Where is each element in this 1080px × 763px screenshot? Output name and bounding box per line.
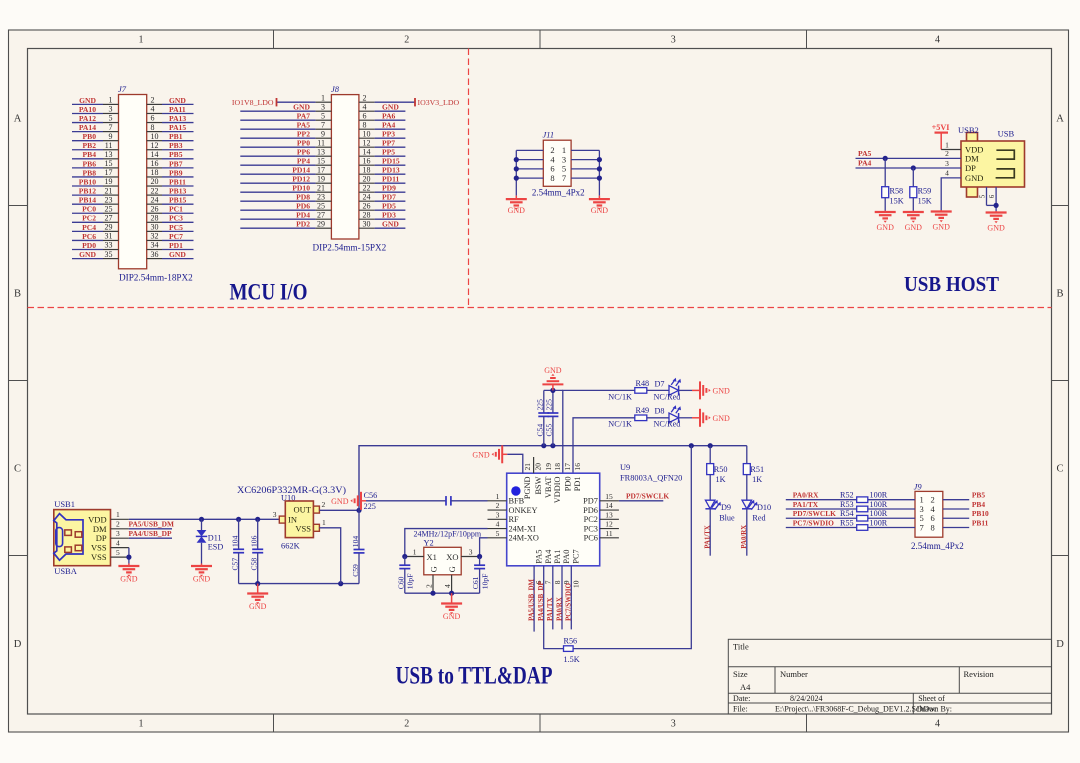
svg-text:GND: GND [544,366,562,375]
svg-text:NC/Red: NC/Red [654,392,681,401]
svg-text:DIP2.54mm-18PX2: DIP2.54mm-18PX2 [119,273,193,283]
connector J9 [786,482,989,552]
svg-text:1: 1 [413,547,417,556]
svg-text:PP4: PP4 [297,157,310,166]
svg-text:26: 26 [151,204,159,213]
svg-text:GND: GND [877,223,895,232]
svg-text:PA5/USB_DM: PA5/USB_DM [129,520,174,529]
svg-text:3: 3 [321,102,325,111]
svg-text:1: 1 [496,492,500,501]
svg-text:PA14: PA14 [79,123,96,132]
svg-text:16: 16 [151,159,159,168]
wire J11 row 3 [516,168,543,170]
ground USB2 pin4 [940,210,942,212]
svg-text:Y2: Y2 [424,539,434,548]
svg-text:17: 17 [563,463,572,471]
svg-text:GND: GND [79,96,96,105]
wire J8 pin 28 (PD3) [359,218,375,220]
svg-text:Drawn By:: Drawn By: [917,705,952,714]
svg-text:1: 1 [321,93,325,102]
svg-text:28: 28 [363,210,371,219]
svg-text:PGND: PGND [523,476,532,499]
wire PA5/USB_DM stub [533,566,535,632]
svg-text:27: 27 [105,214,113,223]
pin 1 [941,149,961,151]
svg-text:PA0: PA0 [562,550,571,564]
ground R59 [912,211,914,213]
svg-text:21: 21 [523,463,532,471]
svg-text:PC7/SWDIO: PC7/SWDIO [793,518,834,527]
svg-text:PC1: PC1 [169,205,183,214]
svg-text:PC7: PC7 [572,549,581,563]
svg-text:PB13: PB13 [169,187,187,196]
wire J7 pin 17 (PB8) [72,176,103,178]
svg-text:VSS: VSS [91,543,107,553]
svg-text:PB11: PB11 [169,177,186,186]
svg-text:10pF: 10pF [406,574,415,590]
svg-text:28: 28 [151,214,159,223]
capacitor C59 [351,508,365,584]
wire PA0/RX net [746,509,748,556]
svg-text:PD7: PD7 [382,193,396,202]
svg-text:8: 8 [930,522,934,532]
svg-text:PA4/USB_DP: PA4/USB_DP [129,529,172,538]
port IO3V3_LDO [414,98,416,106]
svg-text:PA5: PA5 [858,149,872,158]
wire PD7/SWCLK [619,500,663,502]
svg-text:PA1/TX: PA1/TX [704,525,711,548]
svg-text:OUT: OUT [294,505,312,515]
wire J7 pin 20 (PB11) [147,185,162,187]
wire J8 pin 8 (PA4) [359,128,375,130]
net label PA5/USB_DM [129,528,172,530]
svg-text:Size: Size [733,669,748,679]
svg-text:13: 13 [317,147,325,156]
svg-text:7: 7 [562,173,566,183]
wire J8 pin 29 (PD2) [240,227,315,229]
svg-text:106: 106 [250,535,259,547]
svg-text:19: 19 [544,463,553,471]
wire J8 pin 25 (PD6) [240,209,315,211]
svg-text:GND: GND [331,497,349,506]
wire 3.3V rail [359,446,747,511]
wire J7 pin 1 (GND) [72,103,103,105]
svg-text:A: A [14,114,22,125]
wire J7 pin 28 (PC3) [147,221,162,223]
svg-text:12: 12 [151,141,159,150]
svg-text:24: 24 [151,195,159,204]
svg-text:24MHz/12pF/10ppm: 24MHz/12pF/10ppm [414,530,482,539]
capacitor C58 [250,517,264,584]
connector USB2 [856,125,1025,211]
svg-text:PB10: PB10 [79,177,97,186]
wire J7 pin 6 (PA13) [147,122,162,124]
svg-text:3: 3 [109,105,113,114]
wire J7 pin 19 (PB10) [72,185,103,187]
capacitor C61 [471,557,489,594]
resistor R49 [608,406,649,429]
svg-text:PB10: PB10 [972,509,989,518]
svg-text:PB14: PB14 [79,196,97,205]
svg-text:GND: GND [169,250,186,259]
wire U10 OUT [319,509,359,511]
svg-text:PD9: PD9 [382,184,396,193]
wire U10 VSS [319,528,340,584]
svg-text:PA7: PA7 [297,112,311,121]
svg-text:File:: File: [733,705,748,714]
svg-text:PA5: PA5 [534,550,543,564]
wire PA0/RX stub [561,566,563,630]
svg-text:PA4: PA4 [382,121,396,130]
svg-text:11: 11 [605,529,612,538]
wire PA1/TX stub [552,566,554,630]
svg-text:PD2: PD2 [296,220,310,229]
svg-text:2: 2 [363,93,367,102]
resistor R55 [857,525,868,531]
wire J7 pin 8 (PA15) [147,131,162,133]
svg-text:PA0/RX: PA0/RX [793,491,819,500]
svg-text:G: G [447,566,457,572]
svg-text:14: 14 [605,501,613,510]
svg-text:R56: R56 [564,637,578,646]
wire J7 pin 7 (PA14) [72,131,103,133]
svg-text:24M-XI: 24M-XI [509,524,536,533]
svg-text:IO3V3_LDO: IO3V3_LDO [418,98,460,107]
svg-text:PP7: PP7 [382,139,395,148]
svg-text:12: 12 [605,520,613,529]
svg-text:GND: GND [249,602,267,611]
svg-text:VDDIO: VDDIO [553,476,562,503]
wire J11 row 2 [516,159,543,161]
svg-text:ONKEY: ONKEY [509,506,538,515]
wire PD0 to R48 [563,390,635,473]
svg-text:GND: GND [382,103,399,112]
pin U9 5 24M-XO / pin 11 PC6 [488,537,507,539]
wire J8 pin 7 (PA5) [240,128,315,130]
svg-text:14: 14 [151,150,159,159]
svg-text:18: 18 [553,463,562,471]
ground right [598,196,600,200]
wire PA4/USB_DP to R56 [544,566,564,649]
svg-text:GND: GND [905,223,923,232]
svg-text:GND: GND [933,223,951,232]
wire 24M-XI [405,529,488,557]
wire J8 pin 26 (PD5) [359,209,375,211]
svg-text:C56: C56 [364,491,378,500]
svg-text:PD1: PD1 [573,477,582,492]
wire J7 pin 23 (PB14) [72,203,103,205]
svg-text:10: 10 [151,132,159,141]
svg-text:7: 7 [919,522,923,532]
wire J8 pin 21 (PD10) [240,191,315,193]
pin 3 wire PA4 [856,167,962,169]
svg-text:PB15: PB15 [169,196,187,205]
svg-text:24: 24 [363,192,371,201]
svg-text:2.54mm_4Px2: 2.54mm_4Px2 [532,187,585,197]
svg-text:5: 5 [496,529,500,538]
svg-text:B: B [14,289,21,300]
svg-text:15: 15 [317,156,325,165]
svg-text:5: 5 [109,114,113,123]
ground USB2 shield [995,211,997,213]
wire J8 pin 30 (GND) [359,227,375,229]
svg-text:12: 12 [363,138,371,147]
svg-text:2: 2 [945,149,949,158]
svg-text:32: 32 [151,232,159,241]
svg-text:2: 2 [322,500,326,509]
svg-text:GND: GND [79,250,96,259]
svg-text:17: 17 [317,165,325,174]
svg-text:19: 19 [317,174,325,183]
IC U9 FR8003A_QFN20 [488,463,683,588]
svg-text:7: 7 [109,123,113,132]
svg-text:J7: J7 [118,84,127,94]
svg-text:XO: XO [446,552,458,562]
wire J7 pin 25 (PC0) [72,212,103,214]
wire J7 pin 24 (PB15) [147,203,162,205]
svg-text:R51: R51 [750,465,764,474]
svg-text:D8: D8 [655,407,665,416]
wire J8 pin 23 (PD8) [240,200,315,202]
wire J7 pin 11 (PB2) [72,149,103,151]
svg-text:PP6: PP6 [297,148,310,157]
svg-text:USB1: USB1 [54,499,75,509]
wire J7 pin 31 (PC6) [72,239,103,241]
wire left bus [515,150,517,195]
wire J9 row 3 left [786,517,915,519]
svg-text:C54: C54 [536,424,545,437]
wire J7 pin 2 (GND) [147,103,162,105]
svg-text:14: 14 [363,147,371,156]
svg-text:GND: GND [443,612,461,621]
svg-text:19: 19 [105,177,113,186]
svg-text:11: 11 [317,138,325,147]
wire J9 row 3 right [943,517,969,519]
wire J7 pin 29 (PC4) [72,230,103,232]
svg-text:4: 4 [945,169,949,178]
wire J8 pin 9 (PP2) [240,137,315,139]
wire VDD rail from USB1 to U10 [129,518,279,520]
svg-text:PD11: PD11 [382,175,400,184]
ground PGND (left) [502,453,507,455]
svg-text:PD5: PD5 [382,202,396,211]
wire cap top node [544,389,563,391]
wire J7 pin 33 (PD0) [72,249,103,251]
svg-text:C58: C58 [250,558,259,571]
svg-text:104: 104 [351,536,360,548]
wire J8 pin 17 (PD14) [240,173,315,175]
svg-text:34: 34 [151,241,159,250]
svg-text:VSS: VSS [91,552,107,562]
svg-text:PC0: PC0 [82,205,96,214]
svg-text:GND: GND [713,386,731,395]
pin U9 2 ONKEY / pin 14 PD6 [488,509,507,511]
svg-text:100R: 100R [870,509,888,518]
svg-text:A4: A4 [740,682,751,692]
svg-text:PB1: PB1 [169,132,183,141]
svg-text:C: C [14,464,21,475]
svg-text:662K: 662K [281,542,300,551]
svg-text:18: 18 [363,165,371,174]
svg-text:15K: 15K [890,197,904,206]
wire PD1 to R49 [573,418,635,473]
svg-text:PA1/TX: PA1/TX [547,598,554,621]
svg-text:VDD: VDD [88,514,106,524]
svg-text:10pF: 10pF [480,574,489,590]
svg-text:PD7/SWCLK: PD7/SWCLK [626,491,669,500]
svg-text:5: 5 [116,548,120,557]
svg-text:PB9: PB9 [169,168,183,177]
pin U9 4 24M-XI / pin 12 PC3 [488,528,507,530]
svg-text:IO1V8_LDO: IO1V8_LDO [232,98,274,107]
svg-text:B: B [1056,289,1063,300]
svg-text:15: 15 [605,492,613,501]
ground USB1 [128,564,130,567]
svg-text:GND: GND [965,173,983,183]
svg-text:22: 22 [151,186,159,195]
wire right bus [598,150,600,195]
svg-text:X1: X1 [427,552,437,562]
svg-text:PD7: PD7 [583,497,598,506]
svg-text:J9: J9 [914,482,923,492]
wire J7 pin 35 (GND) [72,258,103,260]
svg-text:D9: D9 [721,503,731,512]
svg-text:GND: GND [472,450,490,459]
svg-text:24M-XO: 24M-XO [509,534,539,543]
connector USB1 [54,499,129,576]
svg-text:NC/Red: NC/Red [654,420,681,429]
svg-text:23: 23 [105,195,113,204]
svg-text:33: 33 [105,241,113,250]
svg-text:1: 1 [139,35,144,46]
svg-text:PA0/RX: PA0/RX [741,525,748,549]
wire USB1 VSS join [128,548,130,564]
wire PA1/TX net [709,509,711,556]
svg-text:R59: R59 [918,187,932,196]
svg-text:1K: 1K [752,475,762,484]
svg-text:3: 3 [116,529,120,538]
svg-text:USBA: USBA [54,566,78,576]
svg-text:104: 104 [230,535,239,547]
svg-text:PA4: PA4 [858,159,872,168]
svg-text:PD12: PD12 [292,175,310,184]
svg-text:26: 26 [363,201,371,210]
wire J7 pin 21 (PB12) [72,194,103,196]
svg-text:PC2: PC2 [584,515,598,524]
svg-text:R49: R49 [636,406,650,415]
svg-text:GND: GND [382,220,399,229]
wire J8 pin 3 (GND) [240,110,315,112]
svg-text:GND: GND [169,96,186,105]
wire J11 row 4 [516,177,543,179]
wire J8 pin 18 (PD13) [359,173,375,175]
wire PC7/SWDIO stub [570,566,572,630]
svg-text:C61: C61 [471,576,480,589]
wire J7 pin 12 (PB3) [147,149,162,151]
svg-text:4: 4 [935,719,940,730]
svg-text:PD6: PD6 [296,202,310,211]
wire J7 pin 32 (PC7) [147,239,162,241]
svg-text:8/24/2024: 8/24/2024 [790,694,822,703]
capacitor C55 [545,390,559,445]
svg-text:5: 5 [321,111,325,120]
wire J7 pin 36 (GND) [147,258,162,260]
svg-text:GND: GND [293,103,310,112]
svg-text:MCU I/O: MCU I/O [230,279,308,305]
svg-text:2: 2 [425,584,434,588]
svg-text:1: 1 [322,518,326,527]
svg-text:E:\Project\..\FR3068F-C_Debug_: E:\Project\..\FR3068F-C_Debug_DEV1.2.Sch… [775,705,937,714]
svg-text:15: 15 [105,159,113,168]
svg-text:GND: GND [987,224,1005,233]
svg-text:R55: R55 [840,518,854,527]
svg-text:R50: R50 [714,465,728,474]
svg-text:PP0: PP0 [297,139,310,148]
resistor R59 [903,165,932,232]
svg-text:4: 4 [496,520,500,529]
svg-text:PB2: PB2 [82,141,96,150]
svg-text:11: 11 [105,141,113,150]
svg-text:PC2: PC2 [82,214,96,223]
svg-text:PB8: PB8 [82,168,96,177]
ground top (inverted) [552,384,554,390]
wire R56 net [573,446,691,649]
svg-text:17: 17 [105,168,113,177]
svg-text:Sheet of: Sheet of [918,694,945,703]
svg-text:D11: D11 [208,534,222,543]
svg-text:2: 2 [116,520,120,529]
svg-text:PB12: PB12 [79,187,97,196]
svg-text:4: 4 [116,539,120,548]
svg-text:R58: R58 [890,187,904,196]
wire J7 pin 30 (PC5) [147,230,162,232]
svg-text:2.54mm_4Px2: 2.54mm_4Px2 [911,541,964,551]
wire J9 row 4 right [943,527,969,529]
svg-text:16: 16 [363,156,371,165]
svg-text:PB0: PB0 [82,132,96,141]
svg-text:1.5K: 1.5K [564,655,580,664]
svg-text:VBAT: VBAT [544,477,553,499]
pin U9 1 BFB / pin 15 PD7 [488,500,507,502]
svg-text:1: 1 [139,719,144,730]
wire J9 row 4 left [786,527,915,529]
wire J8 pin 12 (PP7) [359,146,375,148]
wire J7 pin 14 (PB5) [147,158,162,160]
svg-text:20: 20 [363,174,371,183]
svg-text:NC/1K: NC/1K [608,392,632,401]
svg-text:PD4: PD4 [296,211,310,220]
svg-text:36: 36 [151,250,159,259]
svg-text:PA1: PA1 [553,550,562,564]
svg-text:4: 4 [151,105,155,114]
svg-text:PB6: PB6 [82,159,96,168]
wire J8 pin 16 (PD15) [359,164,375,166]
wire J7 pin 3 (PA10) [72,112,103,114]
svg-text:PA4/USB_DP: PA4/USB_DP [538,581,545,621]
svg-text:27: 27 [317,210,325,219]
svg-text:PC7/SWDIO: PC7/SWDIO [566,583,573,621]
LED D8 [654,405,682,429]
svg-text:16: 16 [573,463,582,471]
svg-text:R52: R52 [840,491,854,500]
svg-text:225: 225 [545,399,554,411]
svg-text:USB HOST: USB HOST [904,272,999,296]
capacitor C56 [331,491,487,511]
svg-text:30: 30 [151,223,159,232]
svg-text:USB2: USB2 [958,125,979,135]
svg-text:USB to TTL&DAP: USB to TTL&DAP [396,663,553,690]
svg-text:R54: R54 [840,509,854,518]
